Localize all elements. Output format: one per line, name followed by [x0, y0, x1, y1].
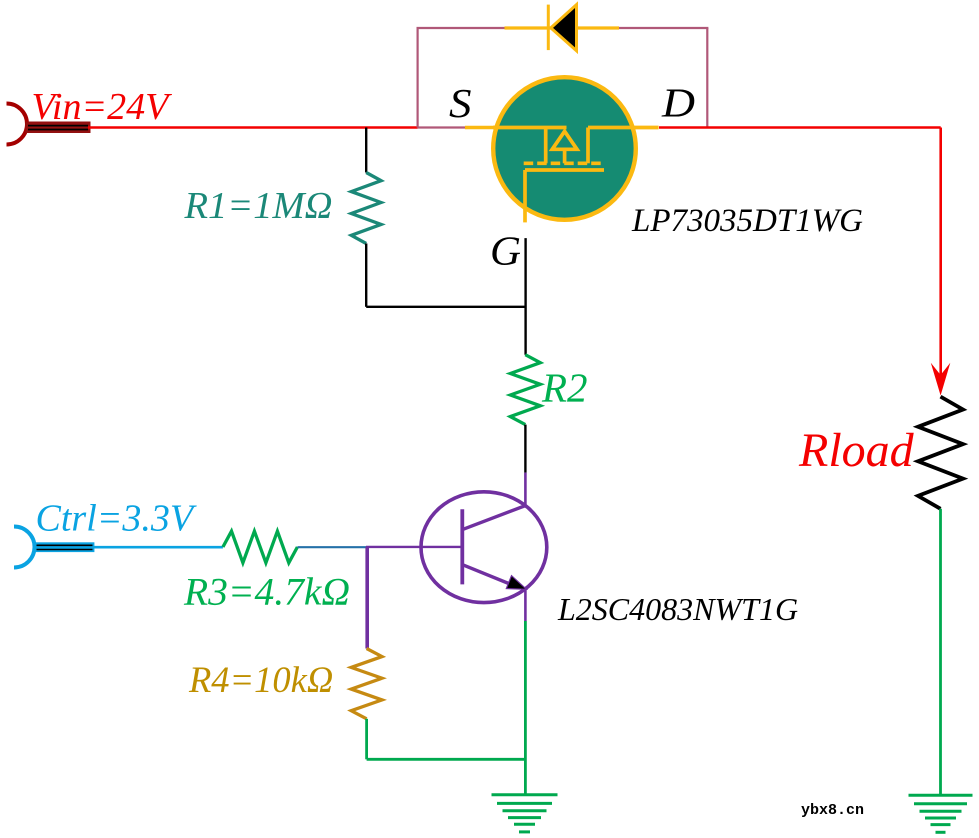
- diode D1 triangle: [551, 5, 577, 51]
- port Ctrl connector bar: [35, 542, 95, 552]
- wire green R4 bottom vertical: [365, 719, 368, 760]
- U1 source contact vertical: [544, 128, 548, 164]
- resistor R1 zigzag: [351, 173, 381, 244]
- port Ctrl connector arc: [14, 527, 35, 568]
- diode D1 cathode bar: [547, 5, 550, 51]
- wire purple base horizontal: [366, 546, 462, 548]
- svg-text:Vin=24V: Vin=24V: [32, 86, 173, 128]
- Q1 emitter arrowhead: [506, 576, 526, 590]
- U1 drain line over circle: [588, 126, 659, 130]
- U1 body contact vertical: [563, 149, 567, 163]
- svg-text:R2: R2: [541, 365, 588, 411]
- wire black R1 top: [365, 128, 367, 173]
- wire steel blue R3 to junction: [297, 546, 366, 548]
- wire black gate horizontal: [366, 306, 525, 308]
- wire black R1 bottom: [365, 244, 367, 307]
- wire black gate vertical: [524, 238, 526, 355]
- svg-text:ybx8.cn: ybx8.cn: [801, 802, 864, 819]
- wire green emitter vertical: [524, 621, 527, 795]
- svg-text:R3=4.7kΩ: R3=4.7kΩ: [183, 570, 350, 614]
- svg-text:D: D: [661, 80, 695, 126]
- svg-text:LP73035DT1WG: LP73035DT1WG: [631, 203, 863, 239]
- wire red D to corner: [659, 126, 941, 129]
- wire cyan Ctrl horizontal: [93, 546, 223, 549]
- Q1 base bar: [460, 509, 464, 584]
- wire Vin red horizontal: [88, 126, 418, 129]
- wire red right vertical: [939, 128, 942, 379]
- svg-text:L2SC4083NWT1G: L2SC4083NWT1G: [557, 591, 798, 627]
- resistor R4 zigzag: [351, 649, 382, 719]
- Q1 collector diagonal: [463, 506, 525, 530]
- svg-text:Ctrl=3.3V: Ctrl=3.3V: [36, 498, 197, 540]
- wire mauve left vertical (S to diode): [417, 28, 419, 128]
- wire gold S pin: [465, 126, 566, 129]
- port Vin connector bar: [26, 122, 91, 134]
- ground GND2: [909, 795, 973, 832]
- wire purple R4 top vertical: [365, 547, 369, 649]
- svg-text:Rload: Rload: [798, 424, 915, 477]
- transistor U1 LP73035DT1WG body circle: [493, 77, 636, 220]
- wire green bottom horizontal: [367, 758, 526, 761]
- U1 drain contact vertical: [586, 128, 590, 164]
- resistor Rload zigzag: [918, 397, 963, 509]
- wire gold diode horizontal: [505, 26, 620, 29]
- svg-text:R4=10kΩ: R4=10kΩ: [188, 659, 333, 700]
- wire purple emitter vertical: [524, 589, 527, 621]
- resistor R3 zigzag: [223, 531, 298, 563]
- U1 source line over circle: [493, 126, 567, 130]
- resistor R2 zigzag: [510, 355, 540, 425]
- U1 channel dashed line: [524, 161, 604, 165]
- port Vin connector arc: [7, 104, 27, 145]
- wire mauve right vertical (diode to D): [706, 28, 708, 127]
- svg-text:S: S: [449, 80, 472, 126]
- arrowhead red current arrow: [931, 363, 951, 396]
- wire mauve S segment: [418, 126, 465, 128]
- ground GND1: [492, 795, 558, 832]
- wire purple collector vertical: [524, 473, 527, 506]
- svg-text:G: G: [490, 228, 521, 274]
- U1 gate bar: [525, 168, 604, 172]
- U1 body diode triangle: [552, 131, 577, 149]
- Q1 emitter diagonal: [463, 565, 516, 587]
- U1 gate pin vertical gold: [523, 170, 527, 222]
- wire green Rload bottom: [939, 509, 942, 795]
- wire mauve top left horizontal: [417, 27, 505, 29]
- svg-text:R1=1MΩ: R1=1MΩ: [184, 185, 333, 227]
- wire black R2 bottom: [524, 425, 526, 473]
- transistor Q1 L2SC4083NWT1G body ellipse: [421, 492, 547, 603]
- wire mauve top right horizontal: [619, 27, 708, 29]
